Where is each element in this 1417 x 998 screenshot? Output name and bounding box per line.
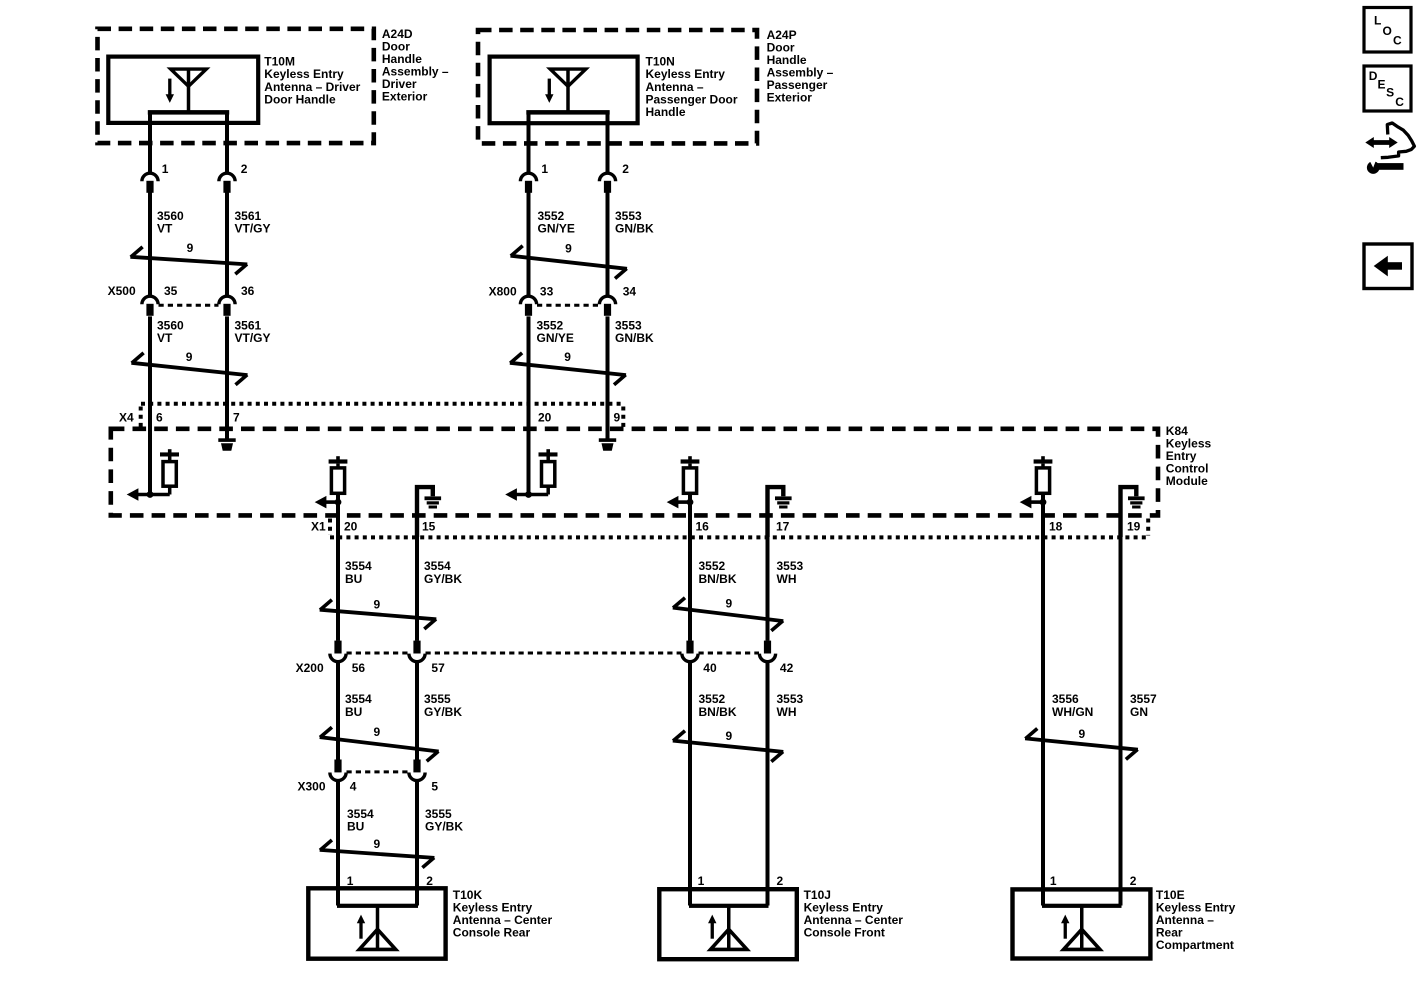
svg-text:L: L [1374, 13, 1381, 27]
svg-text:X800: X800 [489, 284, 517, 298]
svg-text:20: 20 [344, 520, 358, 534]
svg-text:X4: X4 [119, 410, 134, 424]
svg-text:VT: VT [157, 222, 173, 236]
door handle assembly A24D (dashed enclosure) [98, 29, 374, 143]
antenna element bar T10K [337, 904, 418, 908]
label 3552 GN/YE (2) [537, 319, 574, 346]
pin 57 label [431, 661, 445, 675]
label 3554 BU [345, 559, 372, 586]
pin 4 label [350, 779, 357, 793]
antenna T10K (box) [308, 888, 445, 958]
wire T10M pin 1 lead [148, 112, 152, 174]
antenna T10M (box) [108, 57, 258, 123]
svg-text:9: 9 [614, 410, 621, 424]
ground symbol pin 19 [1121, 487, 1145, 537]
connector X500 pin 35 [142, 296, 158, 316]
wire T10N pin 1 lead [527, 112, 531, 174]
svg-text:33: 33 [540, 284, 554, 298]
pin 2 label T10K [426, 874, 433, 888]
svg-text:GN/YE: GN/YE [537, 331, 574, 345]
wire 3553 GN/BK lower [606, 316, 610, 438]
svg-text:9: 9 [374, 598, 381, 612]
svg-text:Compartment: Compartment [1156, 938, 1234, 952]
pin 1 label T10E [1050, 874, 1057, 888]
wire 3552 BN/BK seg1 [688, 502, 692, 641]
svg-text:VT/GY: VT/GY [235, 331, 271, 345]
ground termination pin 7 [218, 438, 235, 450]
svg-text:9: 9 [564, 350, 571, 364]
svg-text:C: C [1393, 34, 1402, 48]
label T10M [264, 55, 360, 107]
pin 2 label [622, 162, 629, 176]
antenna T10N (box) [490, 57, 638, 124]
icon component-view (wrench) [1367, 159, 1404, 174]
svg-text:VT: VT [157, 331, 173, 345]
connector X300 pin 5 [409, 760, 425, 781]
twisted pair symbol [320, 598, 437, 630]
svg-text:D: D [1369, 69, 1378, 83]
wire 3556 WH/GN [1041, 502, 1045, 905]
wire 3553 WH seg1 [766, 508, 770, 640]
wire T10N pin 2 lead [606, 112, 610, 174]
label 3554 GY/BK [424, 559, 462, 586]
connector X4 label [119, 410, 134, 424]
svg-text:2: 2 [622, 162, 629, 176]
connector X4 row (dotted) [141, 404, 624, 427]
label 3553 GN/BK [615, 209, 654, 236]
pin 1 label T10K [347, 874, 354, 888]
pin 34 label [623, 284, 637, 298]
connector X200 pin 42 [759, 641, 775, 662]
pin 35 label [164, 284, 178, 298]
pin 56 label [352, 661, 366, 675]
svg-text:34: 34 [623, 284, 637, 298]
wire 3555 GY/BK seg2 [415, 662, 419, 760]
svg-text:Exterior: Exterior [382, 90, 428, 104]
svg-text:Door Handle: Door Handle [264, 92, 336, 106]
svg-text:WH/GN: WH/GN [1052, 705, 1093, 719]
label 3555 GY/BK (2) [424, 692, 462, 719]
pin 1 label [162, 162, 169, 176]
connector X1 row (dotted) [330, 519, 1149, 538]
wire 3552 GN/YE lower [527, 316, 531, 494]
label 3553 WH [777, 559, 804, 586]
label 3560 VT (2) [157, 319, 184, 346]
terminal T10M pin 1 [142, 173, 158, 193]
label 3561 VT/GY (2) [235, 319, 271, 346]
antenna T10J (box) [659, 889, 797, 959]
svg-text:Console Rear: Console Rear [453, 926, 531, 940]
pin 42 label [780, 661, 794, 675]
twisted pair symbol [130, 241, 247, 274]
svg-text:56: 56 [352, 661, 366, 675]
connector X1 label [311, 520, 326, 534]
svg-text:9: 9 [374, 725, 381, 739]
svg-text:9: 9 [726, 729, 733, 743]
label 3560 VT [157, 209, 184, 236]
terminal T10N pin 2 [599, 173, 615, 193]
svg-text:GN/YE: GN/YE [538, 222, 575, 236]
connector X300 label [298, 779, 326, 793]
svg-text:57: 57 [431, 661, 445, 675]
antenna T10E (box) [1013, 889, 1151, 958]
svg-text:9: 9 [374, 837, 381, 851]
pin 20 label [538, 410, 552, 424]
svg-text:6: 6 [156, 410, 163, 424]
ground termination pin 9 [599, 438, 616, 450]
connector X500 line [159, 304, 219, 307]
svg-text:X200: X200 [296, 661, 324, 675]
label 3553 WH (2) [777, 692, 804, 719]
svg-text:9: 9 [726, 596, 733, 610]
twisted pair symbol [673, 729, 784, 761]
label A24D [382, 27, 449, 104]
label K84 [1166, 424, 1212, 488]
twisted pair symbol [131, 350, 247, 385]
terminal T10M pin 2 [219, 173, 235, 193]
label T10J [804, 888, 904, 940]
pin 15 label [422, 520, 436, 534]
label 3554 BU (3) [347, 807, 374, 834]
twisted pair symbol [511, 242, 628, 279]
connector X800 label [489, 284, 517, 298]
svg-text:35: 35 [164, 284, 178, 298]
pin 20 label X1 [344, 520, 358, 534]
svg-text:5: 5 [431, 779, 438, 793]
pin 1 label T10J [698, 874, 705, 888]
pin 19 label [1127, 520, 1141, 534]
pin 2 label [241, 162, 248, 176]
connector X500 pin 36 [219, 296, 235, 316]
svg-text:4: 4 [350, 779, 357, 793]
label 3552 GN/YE [538, 209, 575, 236]
svg-text:Exterior: Exterior [767, 91, 813, 105]
svg-text:40: 40 [703, 661, 717, 675]
label A24P [767, 28, 834, 105]
icon DESC button [1364, 66, 1411, 111]
svg-text:1: 1 [698, 874, 705, 888]
wire 3554 BU seg2 [336, 662, 340, 760]
label 3556 WH/GN [1052, 692, 1093, 719]
connector X200 pin 57 [409, 641, 425, 662]
module K84 (dashed box) [111, 429, 1158, 516]
antenna symbol T10J [708, 906, 747, 950]
label 3552 BN/BK (2) [699, 692, 737, 719]
label 3553 GN/BK (2) [615, 319, 654, 346]
svg-text:19: 19 [1127, 520, 1141, 534]
ground symbol pin 15 [417, 487, 441, 537]
svg-text:GY/BK: GY/BK [425, 819, 463, 833]
svg-text:O: O [1383, 24, 1392, 38]
svg-text:1: 1 [541, 162, 548, 176]
label 3554 BU (2) [345, 692, 372, 719]
icon LOC button [1364, 8, 1411, 53]
connector X800 pin 34 [599, 296, 615, 316]
svg-text:2: 2 [241, 162, 248, 176]
svg-text:S: S [1386, 86, 1394, 100]
svg-text:GY/BK: GY/BK [424, 572, 462, 586]
icon component-view (outline shape) [1381, 123, 1415, 158]
svg-text:9: 9 [187, 241, 194, 255]
svg-text:2: 2 [777, 874, 784, 888]
pin 17 label [776, 520, 790, 534]
wire 3553 GN/BK upper [606, 192, 610, 296]
wire 3561 VT/GY upper [225, 192, 229, 296]
svg-text:7: 7 [233, 410, 240, 424]
svg-text:17: 17 [776, 520, 790, 534]
pin 18 label [1049, 520, 1063, 534]
wire 3554 BU seg1 [336, 502, 340, 641]
wire 3552 BN/BK seg2 [688, 662, 692, 906]
svg-text:16: 16 [696, 520, 710, 534]
svg-text:GN/BK: GN/BK [615, 331, 654, 345]
svg-text:BN/BK: BN/BK [699, 705, 737, 719]
svg-text:Handle: Handle [646, 105, 686, 119]
icon component-view (double arrow) [1365, 137, 1397, 148]
connector X800 line [537, 304, 599, 307]
svg-text:9: 9 [186, 350, 193, 364]
label 3552 BN/BK [699, 559, 737, 586]
pin 33 label [540, 284, 554, 298]
connector X200 pin 40 [682, 641, 698, 662]
svg-text:WH: WH [777, 705, 797, 719]
svg-text:1: 1 [162, 162, 169, 176]
svg-text:1: 1 [1050, 874, 1057, 888]
svg-text:BU: BU [345, 705, 362, 719]
svg-text:GN/BK: GN/BK [615, 222, 654, 236]
antenna driver coil pin 16 [667, 456, 700, 508]
antenna symbol T10N [545, 69, 586, 112]
connector X300 pin 4 [330, 760, 346, 781]
antenna driver coil pin 20 [505, 449, 557, 501]
connector X200 line [347, 652, 760, 655]
label 3557 GN [1130, 692, 1157, 719]
antenna driver coil pin 18 [1020, 456, 1053, 508]
svg-text:Module: Module [1166, 474, 1208, 488]
svg-text:20: 20 [538, 410, 552, 424]
connector X800 pin 33 [520, 296, 536, 316]
label 3561 VT/GY [235, 209, 271, 236]
connector X200 label [296, 661, 324, 675]
svg-text:GY/BK: GY/BK [424, 705, 462, 719]
label T10N [646, 55, 738, 119]
connector X500 label [108, 284, 136, 298]
antenna driver coil pin 6 [127, 449, 179, 501]
connector X300 line [347, 770, 409, 773]
pin 40 label [703, 661, 717, 675]
antenna element bar T10N [526, 110, 609, 115]
pin 7 label [233, 410, 240, 424]
svg-text:42: 42 [780, 661, 794, 675]
pin 9 label [614, 410, 621, 424]
wire 3561 VT/GY lower [225, 316, 229, 438]
wire 3552 GN/YE upper [527, 192, 531, 296]
label T10K [453, 888, 553, 940]
wire 3553 WH seg2 [766, 662, 770, 906]
svg-text:E: E [1378, 77, 1386, 91]
label 3555 GY/BK (3) [425, 807, 463, 834]
antenna element bar T10J [689, 904, 769, 908]
antenna element bar T10E [1042, 904, 1122, 908]
svg-text:15: 15 [422, 520, 436, 534]
wire 3555 GY/BK seg3 [415, 781, 419, 906]
svg-text:BU: BU [347, 819, 364, 833]
svg-text:Console Front: Console Front [804, 926, 885, 940]
svg-text:VT/GY: VT/GY [235, 222, 271, 236]
wire 3560 VT upper [148, 192, 152, 296]
svg-text:2: 2 [1130, 874, 1137, 888]
svg-text:9: 9 [565, 242, 572, 256]
antenna driver coil pin 20 X1 [315, 456, 348, 508]
pin 2 label T10E [1130, 874, 1137, 888]
twisted pair symbol [673, 596, 784, 630]
svg-text:18: 18 [1049, 520, 1063, 534]
antenna symbol T10K [357, 906, 396, 950]
antenna symbol T10E [1061, 906, 1100, 950]
label T10E [1156, 888, 1236, 952]
svg-text:X1: X1 [311, 520, 326, 534]
svg-text:36: 36 [241, 284, 255, 298]
twisted pair symbol [320, 837, 435, 867]
svg-text:9: 9 [1079, 727, 1086, 741]
twisted pair symbol [510, 350, 626, 385]
pin 1 label [541, 162, 548, 176]
icon back button [1364, 244, 1412, 289]
antenna symbol T10M [166, 69, 207, 112]
pin 16 label [696, 520, 710, 534]
pin 36 label [241, 284, 255, 298]
svg-text:BN/BK: BN/BK [699, 572, 737, 586]
svg-text:X500: X500 [108, 284, 136, 298]
twisted pair symbol [1025, 727, 1138, 759]
ground symbol pin 17 [768, 487, 792, 537]
svg-text:BU: BU [345, 572, 362, 586]
pin 5 label [431, 779, 438, 793]
antenna element bar T10M [148, 110, 229, 115]
door handle assembly A24P (dashed enclosure) [478, 30, 757, 143]
wire 3554 BU seg3 [336, 781, 340, 906]
terminal T10N pin 1 [520, 173, 536, 193]
wire 3554 GY/BK seg1 [415, 508, 419, 640]
svg-text:WH: WH [777, 572, 797, 586]
svg-text:GN: GN [1130, 705, 1148, 719]
wire T10M pin 2 lead [225, 112, 229, 174]
svg-text:C: C [1395, 95, 1404, 109]
svg-text:X300: X300 [298, 779, 326, 793]
twisted pair symbol [320, 725, 439, 761]
pin 2 label T10J [777, 874, 784, 888]
wire 3560 VT lower [148, 316, 152, 494]
pin 6 label [156, 410, 163, 424]
connector X200 pin 56 [330, 641, 346, 662]
wire 3557 GN [1119, 508, 1123, 905]
